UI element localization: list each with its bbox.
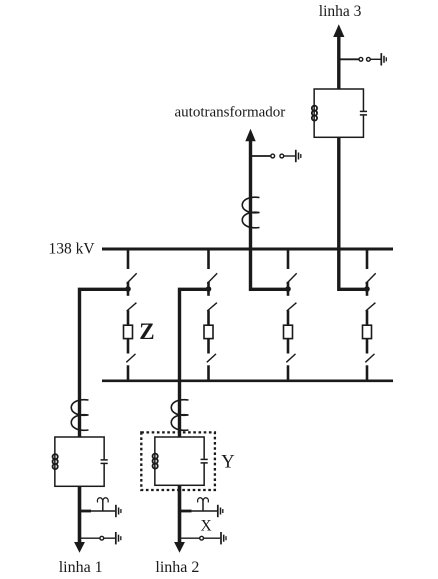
- series reactor coil (linha 2 feeder): [171, 400, 188, 431]
- wire: linha 2 earthing-switch branch: [180, 537, 221, 539]
- bay 3: circuit breaker (rectangle): [284, 325, 293, 338]
- bay 1: wire from 138 kV bus: [127, 248, 130, 270]
- svg-text:X: X: [201, 518, 212, 535]
- arrowhead: autotransformador connection (up): [245, 129, 255, 142]
- bay 1: wire out of breaker: [127, 339, 130, 354]
- bay 4: wire out of breaker: [366, 339, 369, 354]
- earthing switch open contact (autotransformador branch), circle 2: [280, 154, 284, 158]
- wire: lower transfer bus: [102, 379, 393, 382]
- wire: linha 1 arrester branch (thick stub): [80, 510, 92, 513]
- series reactor coil (linha 1 feeder): [71, 400, 88, 431]
- arrowhead: linha 1 outgoing line (down): [74, 542, 85, 553]
- wire: linha 1 feeder below box to arrow: [78, 486, 82, 544]
- bay 1: junction node (tap point): [125, 286, 131, 292]
- bay 3: wire below junction: [287, 289, 290, 296]
- wire: linha 2 arrester branch (thick stub): [180, 510, 192, 513]
- ground symbol (linha 3 branch): [381, 53, 386, 65]
- bay 1: disconnector switch S1b blade: [127, 303, 137, 311]
- bay 2: wire into breaker: [207, 310, 210, 325]
- ground symbol (linha 2 arrester branch): [218, 505, 223, 517]
- bay 4: wire into breaker: [366, 310, 369, 325]
- bay 1: wire below junction: [127, 289, 130, 296]
- wire: linha 3 branch to ground: [370, 58, 380, 60]
- capacitor on right edge of linha 3 line trap U3: [360, 111, 367, 116]
- earthing switch open contact (linha 3 branch), circle 2: [367, 57, 371, 61]
- svg-text:autotransformador: autotransformador: [175, 105, 286, 121]
- bay 3: disconnector switch S3b blade: [287, 303, 297, 311]
- earthing switch open contact (linha 3 branch), circle 1: [359, 57, 363, 61]
- dotted highlight box Y around linha 2 line trap: [141, 432, 215, 490]
- arrowhead: linha 2 outgoing line (down): [174, 542, 185, 553]
- bay 4: disconnector switch S4b blade: [366, 303, 376, 311]
- svg-text:138 kV: 138 kV: [49, 240, 96, 257]
- bay 2: junction node (tap point): [206, 286, 212, 292]
- bay 4: junction node (tap point): [364, 286, 370, 292]
- bay 1: disconnector switch S1a blade: [127, 273, 137, 283]
- wire: linha 3 earthing branch: [339, 58, 359, 60]
- svg-text:Y: Y: [221, 453, 234, 473]
- bay 2: disconnector switch S2b blade: [207, 303, 217, 311]
- wire: autotransformador feeder down through bus to bay 3 tap (thick L): [251, 140, 289, 290]
- inductor winding on left edge of linha 3 line trap U3: [312, 106, 317, 121]
- wire: linha 3 feeder down through bus to bay 4 tap (thick L): [339, 137, 367, 289]
- bay 1: wire into breaker: [127, 310, 130, 325]
- bay 4: wire stub to lower bus: [366, 365, 369, 382]
- bay 4: disconnector switch S4c blade: [365, 354, 374, 362]
- wire: linha 2 feeder from bay 2 tap (thick L) down to L-C box: [180, 289, 209, 437]
- bay 1: disconnector switch S1c blade: [126, 354, 135, 362]
- ground symbol (linha 1 earthing branch): [116, 532, 121, 544]
- bay 2: circuit breaker (rectangle): [204, 325, 213, 338]
- bay 3: junction node (tap point): [285, 286, 291, 292]
- earthing switch open contact (linha 1 branch): [100, 536, 104, 540]
- bay 1: wire stub to lower bus: [127, 365, 130, 382]
- wire: linha 1 earthing-switch branch: [80, 537, 116, 539]
- bay 2: wire below junction: [207, 289, 210, 296]
- inductor winding on left edge of linha 1 line trap U1: [53, 454, 58, 469]
- bay 2: disconnector switch S2c blade: [207, 354, 216, 362]
- bay 4: wire from 138 kV bus: [366, 248, 369, 270]
- svg-text:linha 1: linha 1: [59, 559, 103, 576]
- surge arrester symbol (linha 1): [97, 498, 108, 511]
- series reactor coil (autotransformador feeder): [242, 197, 259, 228]
- bay 2: wire from 138 kV bus: [207, 248, 210, 270]
- bay 3: disconnector switch S3c blade: [286, 354, 295, 362]
- bay 3: disconnector switch S3a blade: [287, 273, 297, 283]
- surge arrester symbol (linha 2): [198, 498, 209, 511]
- ground symbol (linha 1 arrester branch): [116, 505, 121, 517]
- bay 1: circuit breaker (rectangle): [124, 325, 133, 338]
- svg-text:linha 3: linha 3: [319, 3, 362, 20]
- L-C box outline (linha 1 line trap U1): [55, 437, 104, 486]
- arrowhead: linha 3 outgoing line (up): [333, 24, 344, 37]
- capacitor on right edge of linha 1 line trap U1: [101, 459, 108, 464]
- L-C box outline (linha 2 line trap U2): [155, 437, 204, 485]
- L-C box outline (linha 3 line trap U3): [314, 89, 363, 137]
- earthing switch open contact (autotransformador branch), circle 1: [271, 154, 275, 158]
- capacitor on right edge of linha 2 line trap U2: [201, 459, 208, 464]
- bay 3: wire out of breaker: [287, 339, 290, 354]
- bay 2: wire stub above junction: [207, 282, 210, 287]
- wire: autotransformador earthing branch: [251, 155, 271, 157]
- bay 4: circuit breaker (rectangle): [363, 325, 372, 338]
- wire: main 138 kV bus (upper busbar): [102, 248, 393, 251]
- bay 4: wire below junction: [366, 289, 369, 296]
- ground symbol (linha 2 earthing branch): [221, 532, 226, 544]
- svg-text:linha 2: linha 2: [155, 559, 199, 576]
- wire: autotransformador branch to ground: [284, 155, 295, 157]
- bay 2: wire out of breaker: [207, 339, 210, 354]
- wire: linha 1 arrester branch (thin): [91, 510, 115, 512]
- inductor winding on left edge of linha 2 line trap U2: [153, 454, 158, 469]
- bay 3: wire stub to lower bus: [287, 365, 290, 382]
- bay 3: wire from 138 kV bus: [287, 248, 290, 270]
- wire: linha 3 from arrow to L-C box: [337, 35, 340, 90]
- ground symbol (autotransformador branch): [296, 150, 301, 162]
- bay 3: wire into breaker: [287, 310, 290, 325]
- bay 4: disconnector switch S4a blade: [366, 273, 376, 283]
- wire: linha 2 arrester branch (thin): [192, 510, 218, 512]
- bay 3: wire stub above junction: [287, 282, 290, 287]
- bay 2: disconnector switch S2a blade: [207, 273, 217, 283]
- bay 1: wire stub above junction: [127, 282, 130, 287]
- wire: linha 1 feeder from bay 1 tap (thick L) down to L-C box: [80, 289, 129, 437]
- earthing switch open contact X (linha 2 branch): [200, 536, 204, 540]
- wire: linha 2 feeder below box to arrow: [178, 485, 182, 543]
- svg-text:Z: Z: [139, 319, 154, 344]
- bay 2: wire stub to lower bus: [207, 365, 210, 382]
- bay 4: wire stub above junction: [366, 282, 369, 287]
